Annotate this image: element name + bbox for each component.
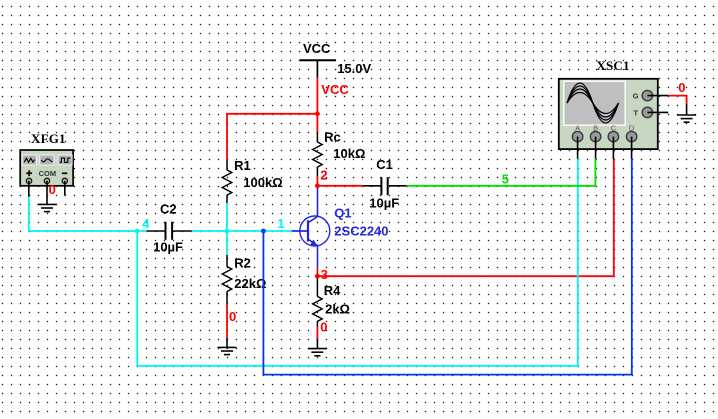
SECTION: xfg xyxy=(20,131,73,212)
svg-text:4: 4 xyxy=(142,216,150,231)
svg-text:R1: R1 xyxy=(234,158,251,173)
svg-text:2kΩ: 2kΩ xyxy=(325,302,350,317)
node 3 junction xyxy=(315,274,320,279)
svg-text:COM: COM xyxy=(39,169,57,178)
svg-text:Q1: Q1 xyxy=(334,205,351,220)
svg-text:C2: C2 xyxy=(160,202,177,217)
resistor R1 xyxy=(222,158,282,203)
node VCC junction xyxy=(315,111,320,116)
wire VCC to R1 horizontal xyxy=(226,113,318,115)
oscilloscope XSC1 xyxy=(559,58,669,159)
lead A xyxy=(577,137,579,159)
wire R1 bottom cyan xyxy=(226,203,228,231)
lead B xyxy=(595,137,597,159)
scope screen xyxy=(564,81,625,125)
ground below R4 xyxy=(308,339,327,356)
wire node4 to scope A cyan loop xyxy=(137,158,578,366)
terminal COM xyxy=(44,178,49,183)
wire C1 to scope B green xyxy=(407,158,596,186)
svg-text:XSC1: XSC1 xyxy=(596,58,629,73)
SECTION: resistors xyxy=(218,129,366,355)
svg-text:5: 5 xyxy=(502,171,509,186)
wire XFG plus lead cyan down xyxy=(29,197,147,232)
ground below COM xyxy=(38,204,57,211)
ground at scope xyxy=(677,104,696,122)
wire node 3 to scope C xyxy=(317,159,613,276)
node 1 junction at R1/R2 column xyxy=(225,229,230,234)
svg-text:10µF: 10µF xyxy=(369,195,399,210)
wire Rc to node 2 xyxy=(316,176,318,187)
wire emitter to node 3 xyxy=(316,269,318,277)
node 4 junction xyxy=(135,229,140,234)
resistor R2 xyxy=(222,255,266,304)
terminal A xyxy=(572,131,582,141)
SECTION: transistor xyxy=(292,187,389,269)
terminal D xyxy=(626,131,636,141)
svg-text:100kΩ: 100kΩ xyxy=(243,175,282,190)
wire R2 net 0 segment xyxy=(226,304,228,338)
terminal plus xyxy=(26,178,31,183)
lead from plus terminal xyxy=(28,181,30,197)
triangle button xyxy=(40,155,54,165)
svg-text:10µF: 10µF xyxy=(153,240,183,255)
capacitor C2 xyxy=(147,202,192,255)
terminal labels A B C D xyxy=(575,123,635,132)
terminal C xyxy=(608,131,618,141)
power symbol VCC xyxy=(300,41,337,77)
SECTION: capacitors xyxy=(147,157,407,254)
svg-text:VCC: VCC xyxy=(303,41,331,56)
svg-text:22kΩ: 22kΩ xyxy=(234,276,266,291)
svg-text:XFG1: XFG1 xyxy=(31,131,66,146)
wire G to ground red xyxy=(668,96,686,104)
resistor Rc xyxy=(313,129,366,176)
svg-text:3: 3 xyxy=(321,267,328,282)
node 2 junction xyxy=(315,183,320,188)
ground below R2 xyxy=(218,338,237,355)
svg-text:C1: C1 xyxy=(376,157,393,172)
svg-text:10kΩ: 10kΩ xyxy=(333,146,365,161)
plus symbol xyxy=(26,170,32,176)
svg-text:0: 0 xyxy=(49,182,56,197)
svg-text:VCC: VCC xyxy=(321,82,349,97)
capacitor C1 xyxy=(363,157,407,210)
square button xyxy=(58,155,72,165)
SECTION: xsc xyxy=(559,58,696,159)
svg-text:15.0V: 15.0V xyxy=(337,61,371,76)
lead from minus terminal xyxy=(64,181,66,196)
wire down to R1 xyxy=(226,114,228,160)
lead G xyxy=(647,95,668,97)
SECTION: wires xyxy=(29,78,632,375)
resistor R4 xyxy=(313,276,350,327)
function generator XFG1 xyxy=(20,131,73,212)
svg-text:R4: R4 xyxy=(324,283,341,298)
wire VCC rail red vertical xyxy=(316,78,318,132)
transistor Q1 (NPN 2SC2240) xyxy=(292,187,330,269)
wire C2 to base cyan xyxy=(192,230,292,232)
lead C xyxy=(612,137,614,160)
terminal B xyxy=(590,131,600,141)
scope waveform xyxy=(567,83,619,123)
wire node 2 to C1 xyxy=(317,185,363,187)
terminal minus xyxy=(62,178,67,183)
svg-text:2: 2 xyxy=(320,168,327,183)
wire R4 net 0 segment xyxy=(316,327,318,338)
SECTION: power xyxy=(300,41,372,97)
svg-text:2SC2240: 2SC2240 xyxy=(334,224,388,239)
lead D xyxy=(631,137,633,159)
minus symbol xyxy=(62,172,67,174)
node junction base to scope D xyxy=(261,229,266,234)
svg-text:Rc: Rc xyxy=(324,129,341,144)
sine button xyxy=(22,155,36,165)
svg-text:R2: R2 xyxy=(234,256,251,271)
lead T xyxy=(647,111,668,113)
svg-text:0: 0 xyxy=(678,80,685,95)
svg-text:0: 0 xyxy=(229,309,236,324)
wire bus to R2 cyan xyxy=(226,231,228,255)
svg-text:T: T xyxy=(634,109,639,118)
svg-text:G: G xyxy=(633,92,639,101)
lead from COM terminal xyxy=(46,181,48,204)
svg-text:0: 0 xyxy=(320,320,327,335)
svg-text:1: 1 xyxy=(277,216,284,231)
wire base to scope D blue loop xyxy=(263,158,631,374)
